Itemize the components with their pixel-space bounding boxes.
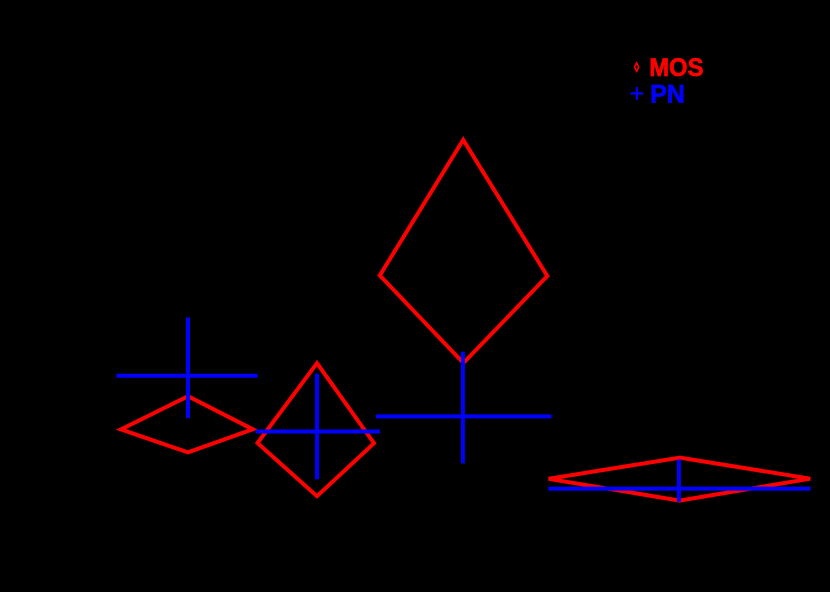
MOS diamond 3 [380,140,548,363]
PN point 2 horizontal error bar [256,430,380,434]
PN point 2 vertical error bar [315,374,319,480]
legend PN marker [631,92,644,94]
MOS diamond 1 [121,396,253,452]
PN point 1 horizontal error bar [117,374,258,378]
PN point 3 horizontal error bar [376,414,552,418]
legend MOS marker [635,63,639,71]
MOS diamond 2 [258,363,375,496]
PN point 1 vertical error bar [186,318,190,419]
MOS diamond 4 [549,458,811,501]
svg-text:MOS: MOS [649,54,703,82]
svg-text:PN: PN [650,80,685,108]
PN point 4 vertical error bar [677,459,681,501]
PN point 3 vertical error bar [461,352,465,464]
PN point 4 horizontal error bar [548,487,810,491]
